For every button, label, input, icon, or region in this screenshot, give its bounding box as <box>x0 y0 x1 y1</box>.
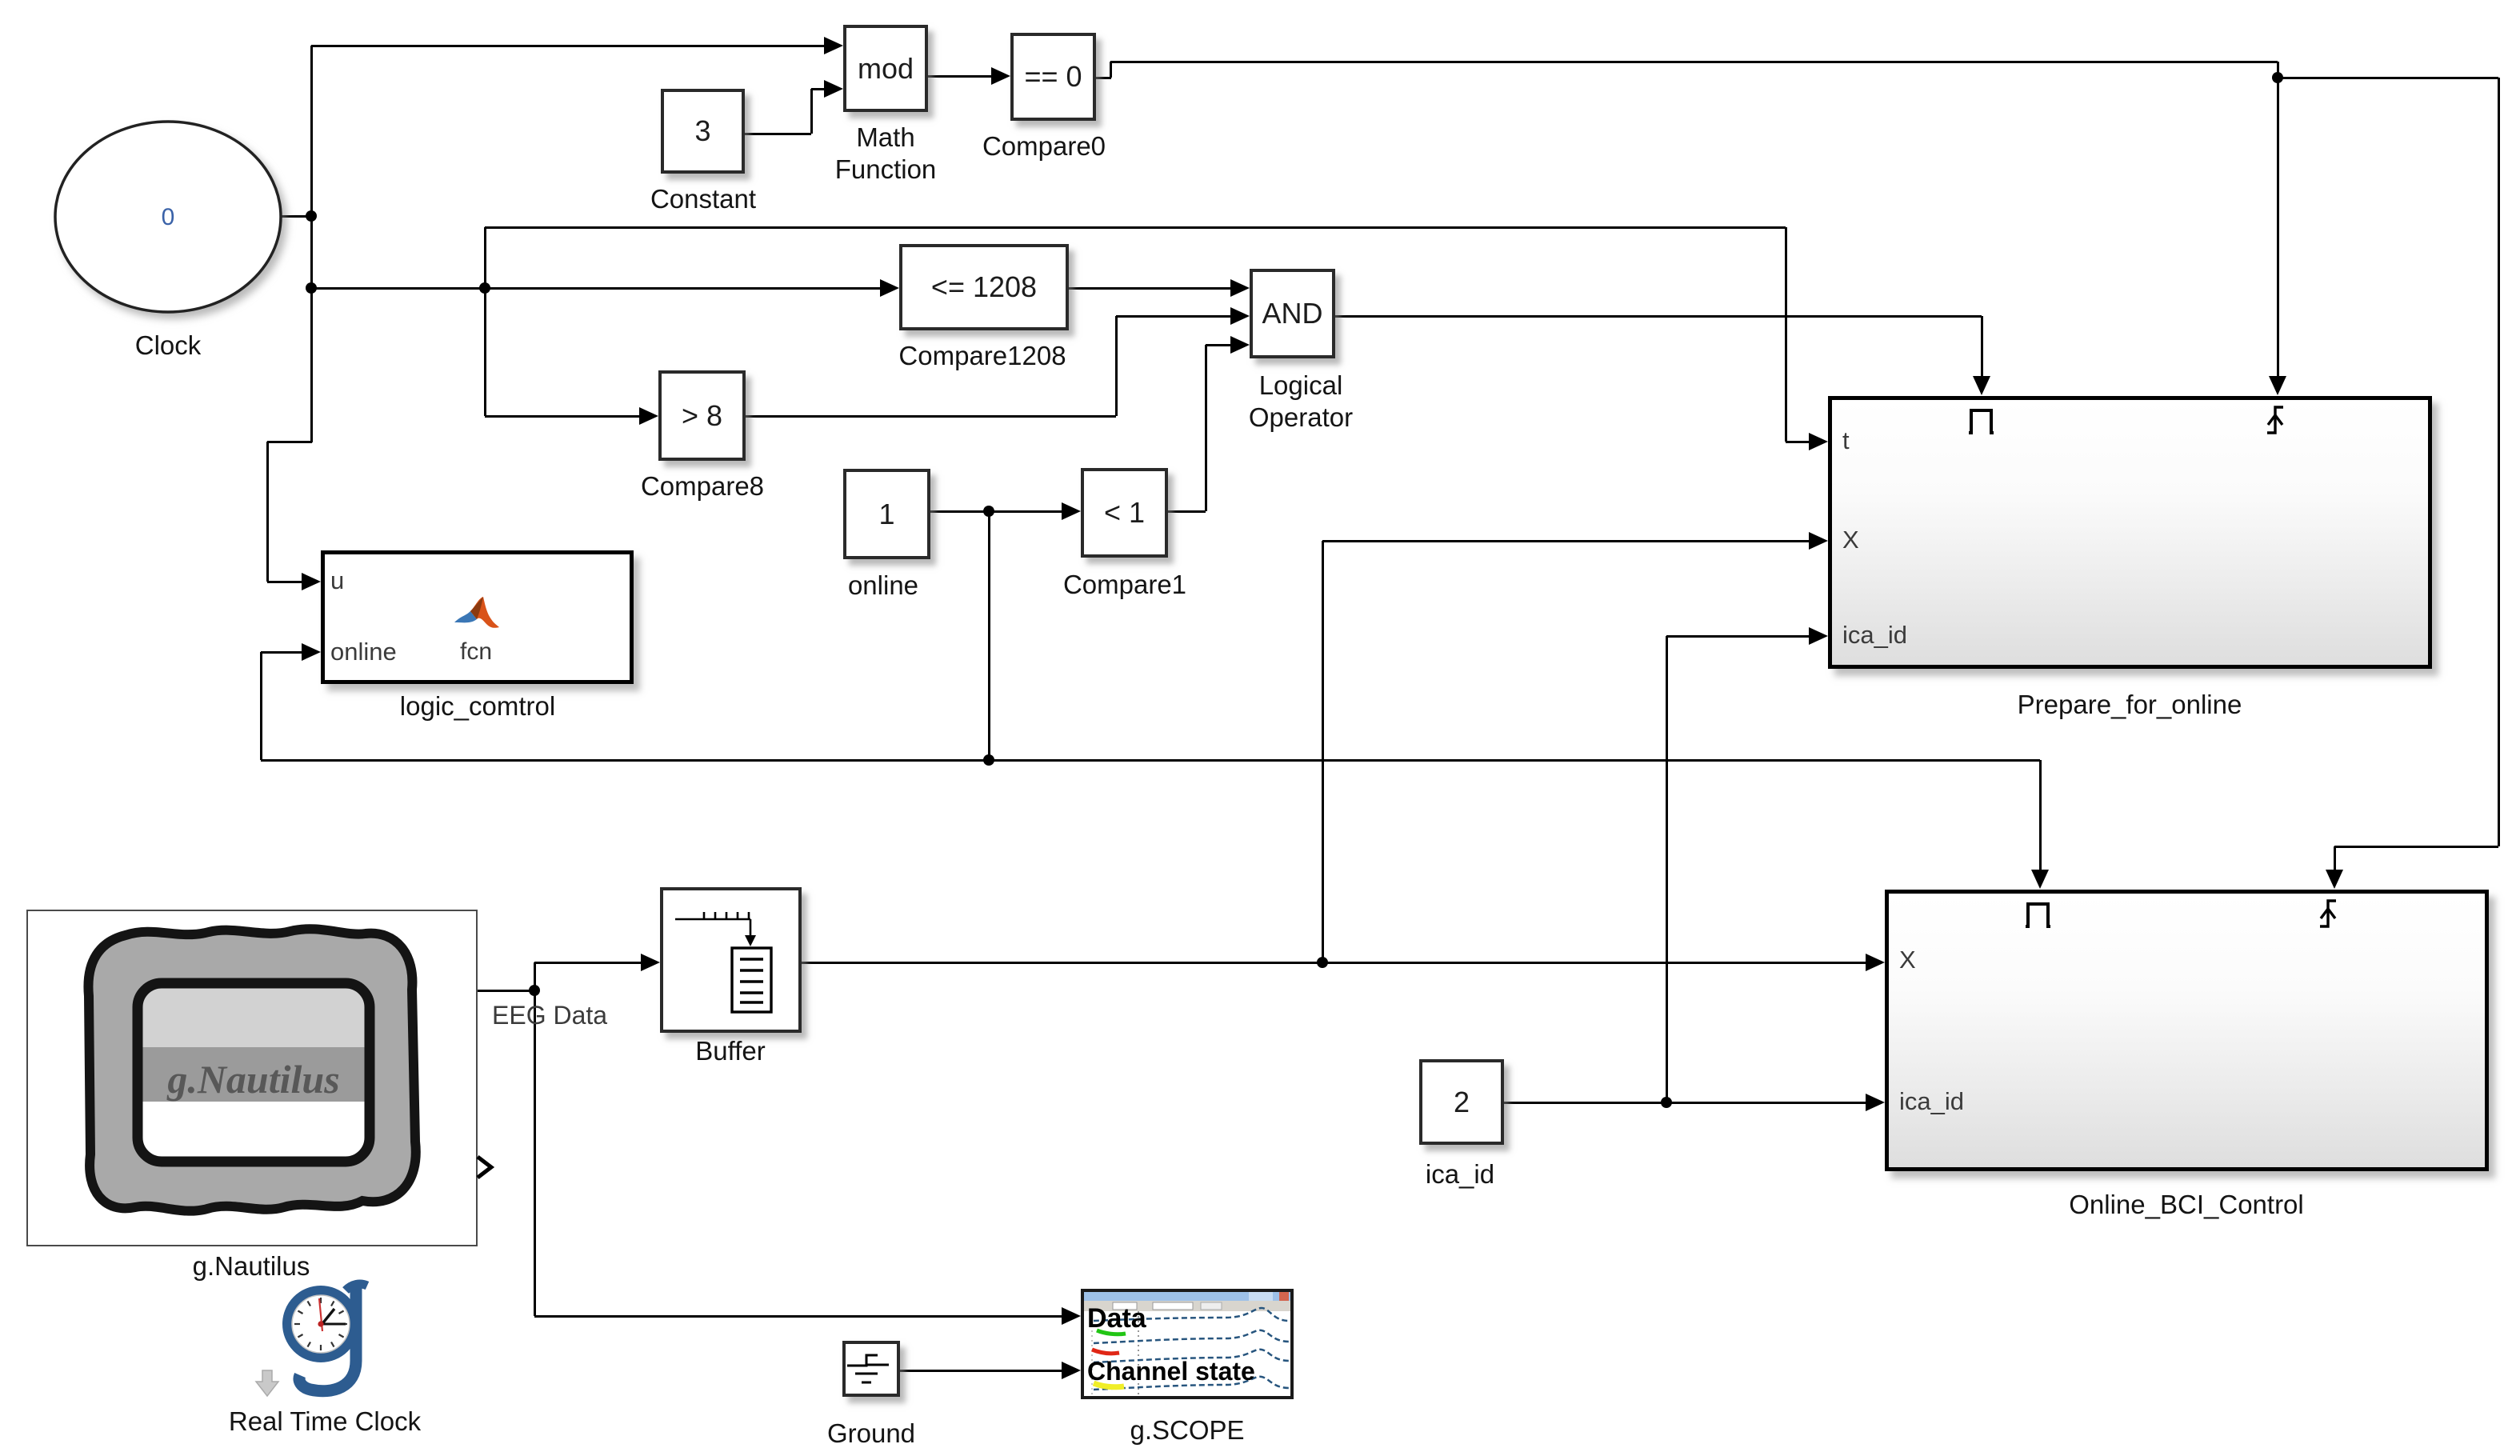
port label X <box>1899 946 1916 974</box>
junction online output node <box>983 506 994 517</box>
label EEG Data <box>492 1001 607 1030</box>
arrowhead into Online_BCI_Control X port <box>1866 954 1885 971</box>
wire jog left toward logic_comtrol <box>267 441 312 443</box>
wire Ground output <box>900 1370 1063 1372</box>
wire Compare0 output stub <box>1096 77 1111 79</box>
wire online feedback line <box>261 759 2040 762</box>
label ica_id <box>1220 1158 1700 1190</box>
arrowhead into Compare1 <box>1062 502 1081 520</box>
wire vertical up to Prepare ica_id <box>1666 636 1668 1102</box>
arrowhead into Online_BCI_Control ica_id port <box>1866 1094 1885 1111</box>
label Math Function <box>646 122 1126 186</box>
arrowhead into Buffer <box>641 954 660 971</box>
wire vertical down to Prepare edge trigger <box>2277 62 2279 378</box>
label Clock <box>0 330 408 362</box>
wire into logic_comtrol online port <box>261 651 305 654</box>
arrowhead into Prepare_for_online t port <box>1809 433 1828 450</box>
arrowhead into Online_BCI_Control edge trigger <box>2326 870 2343 889</box>
label Constant <box>463 183 943 215</box>
block logic_comtrol (MATLAB Function) <box>321 550 634 684</box>
wire vertical down to t port <box>1785 227 1787 442</box>
port chevron g.Nautilus output <box>475 1155 496 1179</box>
port label ica_id <box>1899 1087 1964 1116</box>
wire vertical down to u input <box>266 442 269 582</box>
wire vertical up to AND input 3 <box>1205 345 1207 511</box>
arrowhead into AND input 2 <box>1230 307 1250 325</box>
wire vertical down to Prepare trigger <box>1981 316 1983 378</box>
wire left toward Online edge trigger <box>2334 846 2498 848</box>
arrowhead into logic_comtrol u port <box>302 573 321 590</box>
label Logical Operator <box>1061 370 1541 434</box>
svg-text:g.Nautilus: g.Nautilus <box>166 1057 339 1102</box>
wire long t line to Prepare_for_online <box>485 226 1786 229</box>
wire into Compare8 <box>485 415 641 418</box>
block Compare0 (== 0) <box>1010 33 1096 121</box>
label Ground <box>631 1418 1111 1450</box>
arrowhead into Compare8 <box>639 407 658 425</box>
wire vertical up to Math Function input 2 <box>810 89 813 134</box>
block Clock (ellipse source) <box>48 114 304 330</box>
icon edge trigger symbol (Online) <box>2317 896 2352 930</box>
arrowhead into Prepare_for_online edge trigger <box>2269 376 2286 395</box>
wire vertical up to AND input 2 <box>1115 316 1118 416</box>
wire online constant output <box>930 510 1063 513</box>
wire branch to right margin <box>2278 77 2498 79</box>
arrowhead into Math Function u port <box>824 37 843 54</box>
label Prepare_for_online <box>1890 689 2370 721</box>
arrowhead into g.SCOPE Channel state port <box>1062 1362 1081 1379</box>
label logic_comtrol <box>238 690 718 722</box>
label Compare0 <box>804 130 1284 162</box>
block Compare1 (&lt; 1) <box>1081 468 1168 558</box>
svg-text:0: 0 <box>162 204 175 230</box>
wire into u port <box>267 581 305 583</box>
wire vertical up to Buffer <box>534 962 536 990</box>
wire Math Function output <box>928 75 993 78</box>
arrowhead into Math Function input 2 <box>824 80 843 98</box>
block Constant value 3 <box>661 89 745 174</box>
junction ica_id node <box>1661 1097 1672 1108</box>
junction X branch node <box>1317 957 1328 968</box>
wire into Prepare X <box>1322 540 1810 542</box>
junction Compare0 branch node <box>2272 72 2283 83</box>
wire into AND input 2 <box>1116 315 1232 318</box>
subsystem Online_BCI_Control <box>1885 890 2489 1171</box>
block g.Nautilus (EEG cap) <box>26 910 478 1246</box>
wire into Prepare ica_id <box>1666 635 1810 638</box>
wire vertical down to g.SCOPE <box>534 990 536 1316</box>
icon pulse trigger symbol (Online) <box>2024 898 2056 930</box>
wire Compare1208 output to AND input 1 <box>1069 287 1232 290</box>
block Real Time Clock (g logo with clock) <box>264 1277 384 1405</box>
block Compare8 (&gt; 8) <box>658 370 746 461</box>
wire Clock output <box>279 215 312 218</box>
block Buffer <box>660 887 802 1033</box>
arrowhead into Online_BCI_Control pulse trigger <box>2031 870 2049 889</box>
subsystem Prepare_for_online <box>1828 396 2432 669</box>
wire Constant output <box>745 133 811 135</box>
port label u <box>330 566 344 595</box>
label Buffer <box>490 1035 970 1067</box>
port label t <box>1842 426 1850 455</box>
wire vertical up to Prepare X <box>1322 541 1324 962</box>
arrowhead into g.SCOPE Data port <box>1062 1307 1081 1325</box>
wire vertical down from online node <box>988 511 990 760</box>
label Compare1208 <box>742 340 1222 372</box>
arrowhead into logic_comtrol online port <box>302 643 321 661</box>
port label fcn <box>460 638 492 666</box>
wire into t port <box>1786 441 1810 443</box>
wire vertical into Online edge trigger <box>2334 846 2336 872</box>
port label X <box>1842 526 1859 554</box>
label Real Time Clock <box>85 1406 565 1438</box>
port label ica_id <box>1842 621 1907 650</box>
wire right margin vertical <box>2498 78 2500 846</box>
wire into AND input 3 <box>1206 344 1232 346</box>
junction t-branch node <box>306 282 317 294</box>
wire vertical into Online pulse trigger <box>2039 760 2042 872</box>
icon ground symbol <box>846 1344 890 1387</box>
arrowhead into AND input 1 <box>1230 279 1250 297</box>
wire vertical up to t line <box>484 227 486 288</box>
wire vertical down to Compare8 <box>484 288 486 416</box>
block Compare1208 (&lt;= 1208) <box>899 244 1069 330</box>
block Math Function (mod) <box>843 25 928 112</box>
svg-text:Channel state: Channel state <box>1087 1357 1255 1386</box>
block online constant value 1 <box>843 469 930 559</box>
junction online feedback node <box>983 754 994 766</box>
label online <box>643 570 1123 602</box>
junction EEG Data node <box>529 985 540 996</box>
block ica_id constant value 2 <box>1419 1059 1504 1145</box>
wire Compare8 output <box>746 415 1116 418</box>
label g.SCOPE <box>947 1414 1427 1446</box>
wire Clock to Compare1208 <box>311 287 882 290</box>
wire AND output <box>1335 315 1982 318</box>
wire long Compare0 line <box>1110 61 2278 63</box>
arrowhead into Prepare_for_online X port <box>1809 532 1828 550</box>
svg-text:Data: Data <box>1087 1303 1147 1334</box>
icon MATLAB membrane logo <box>453 592 501 640</box>
label Compare8 <box>462 470 942 502</box>
arrowhead into Compare1208 <box>880 279 899 297</box>
block g.SCOPE (scope screenshot) <box>1081 1289 1294 1399</box>
arrowhead into Prepare_for_online pulse trigger <box>1973 376 1990 395</box>
junction Clock output node <box>306 210 317 222</box>
label Online_BCI_Control <box>1946 1189 2426 1221</box>
wire Compare0 output step up <box>1110 62 1112 78</box>
arrowhead into Prepare_for_online ica_id port <box>1809 627 1828 645</box>
icon edge trigger symbol (Prepare) <box>2264 402 2299 436</box>
wire g.Nautilus EEG output <box>477 990 534 992</box>
block Ground <box>842 1341 900 1397</box>
label Compare1 <box>885 569 1365 601</box>
wire vertical to online feedback line <box>260 652 262 760</box>
port label online <box>330 638 397 666</box>
wire into g.SCOPE Data <box>534 1315 1063 1318</box>
arrowhead into Compare0 <box>991 67 1010 85</box>
wire ica_id constant output <box>1504 1102 1867 1104</box>
icon Buffer signal-to-frame <box>669 900 789 1020</box>
wire into Math Function input 2 <box>811 88 826 90</box>
wire Buffer output X line <box>802 962 1867 964</box>
junction Compare branch node <box>479 282 490 294</box>
block Logical Operator AND <box>1250 269 1335 358</box>
wire into Buffer <box>534 962 642 964</box>
icon pulse trigger symbol (Prepare) <box>1967 404 1999 436</box>
wire Compare1 output <box>1168 510 1206 513</box>
wire to Math Function input 1 <box>311 45 826 47</box>
arrowhead into AND input 3 <box>1230 336 1250 354</box>
label g.Nautilus <box>11 1250 491 1282</box>
wire vertical riser from Clock node <box>310 46 313 442</box>
